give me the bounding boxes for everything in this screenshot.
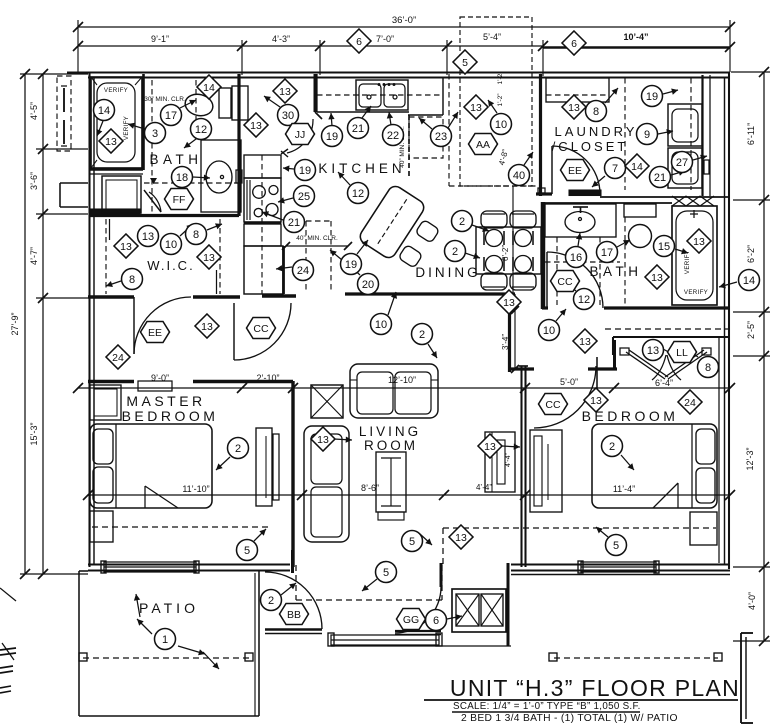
- callout diamond 14 #6: [625, 154, 649, 178]
- svg-text:13: 13: [250, 120, 262, 132]
- diamond 6 top right: [562, 31, 586, 55]
- exterior wall top: [67, 71, 730, 73]
- callout diamond 13 #3: [244, 113, 268, 137]
- leader c19 sink: [331, 113, 332, 126]
- callout circle 17 #29: [597, 242, 618, 263]
- callout circle 2 #40: [602, 436, 623, 457]
- svg-text:1’-2”: 1’-2”: [497, 93, 504, 106]
- callout circle 21 #27: [650, 167, 671, 188]
- master blanket fold: [145, 486, 178, 508]
- svg-text:12: 12: [578, 294, 590, 306]
- svg-text:13: 13: [470, 102, 482, 114]
- patio left outline: [79, 570, 88, 572]
- leader c5 master: [254, 529, 266, 541]
- leader c21 laundry: [671, 171, 685, 175]
- dashed 40min vertical: [408, 115, 410, 177]
- svg-text:21: 21: [352, 123, 364, 135]
- svg-text:23: 23: [435, 131, 447, 143]
- callout hexagon CC #5: [247, 318, 276, 339]
- callout diamond 13 #18: [478, 434, 502, 458]
- svg-text:11’-4”: 11’-4”: [613, 484, 635, 494]
- svg-text:14: 14: [98, 105, 110, 117]
- wall bath1 east: [237, 74, 240, 216]
- callout hexagon BB #9: [280, 604, 309, 625]
- callout diamond 13 #4: [464, 95, 488, 119]
- svg-text:5: 5: [613, 540, 619, 552]
- callout circle 10 #17: [371, 314, 392, 335]
- callout diamond 13 #9: [197, 245, 221, 269]
- leader c19 laundry: [663, 90, 678, 94]
- dim line B across y495: [88, 494, 730, 496]
- entry dashed: [295, 565, 297, 600]
- svg-text:6: 6: [571, 38, 577, 50]
- callout diamond 13 #16: [584, 388, 608, 412]
- svg-text:13: 13: [455, 532, 467, 544]
- svg-text:13: 13: [201, 321, 213, 333]
- laundry small fixture: [704, 160, 709, 174]
- kitchen counter dashed: [317, 94, 443, 96]
- svg-text:4’-4”: 4’-4”: [505, 452, 512, 467]
- leader c14 tub1: [97, 121, 103, 136]
- wall laundry south: [536, 192, 552, 195]
- sofa top: [350, 364, 438, 418]
- svg-text:13: 13: [590, 395, 602, 407]
- dimension line right: [763, 72, 765, 641]
- svg-text:LL: LL: [676, 347, 688, 359]
- dimension line second top: [78, 45, 543, 47]
- laundry dashed flues: [624, 78, 626, 190]
- leader c13 closet: [663, 349, 678, 357]
- callout circle 14 #33: [739, 270, 760, 291]
- callout diamond 13 #19: [311, 427, 335, 451]
- callout diamond 13 #5: [562, 95, 586, 119]
- dashed dining zone: [449, 185, 540, 187]
- callout circle 9 #24: [637, 124, 658, 145]
- callout circle 22 #12: [383, 125, 404, 146]
- laundry shelf: [546, 78, 609, 102]
- callout hexagon JJ #1: [286, 124, 315, 145]
- door hall-living CC: [233, 303, 235, 360]
- svg-text:16: 16: [570, 252, 582, 264]
- svg-text:4’-3”: 4’-3”: [272, 34, 290, 44]
- leader c2 master: [216, 457, 230, 470]
- slab line mid: [331, 645, 511, 647]
- wall pantry east: [282, 246, 285, 294]
- bed2 pillows: [696, 429, 715, 464]
- callout circle 1 #42: [155, 629, 176, 650]
- leader patio 1: [137, 619, 152, 634]
- fridge dashed: [409, 117, 443, 158]
- callout diamond 13 #13: [645, 265, 669, 289]
- vanity bath2: [545, 204, 616, 237]
- wall tub1 surround: [142, 74, 145, 170]
- dining seat bl: [486, 256, 503, 273]
- callout circle 40 #19: [509, 165, 530, 186]
- leader c3: [128, 124, 145, 129]
- leader c10 hall: [388, 292, 396, 315]
- living south window: [331, 635, 439, 645]
- callout circle 21 #8: [284, 212, 305, 233]
- leader c5 bed2: [596, 527, 608, 537]
- callout circle 5 #37: [402, 531, 423, 552]
- patio right slab: [511, 574, 730, 576]
- callout circle 24 #9: [293, 260, 314, 281]
- svg-text:8: 8: [593, 106, 599, 118]
- master dresser: [90, 385, 121, 420]
- leader c16 sink2: [578, 233, 580, 246]
- svg-text:40” MIN. CLR.: 40” MIN. CLR.: [296, 235, 338, 242]
- leader c6 mech: [447, 616, 462, 619]
- title underline: [424, 699, 738, 701]
- leader c12 kitchen: [338, 172, 350, 185]
- svg-text:13: 13: [693, 236, 705, 248]
- leader c17 toilet1: [180, 100, 196, 108]
- wall bedroom door north: [509, 367, 534, 370]
- svg-text:EE: EE: [568, 165, 582, 177]
- leader c9: [658, 131, 673, 134]
- mech closet: [452, 589, 506, 632]
- wall wic north: [89, 214, 239, 217]
- door bedroom2: [596, 357, 598, 390]
- callout diamond 24 #11: [106, 345, 130, 369]
- patio left dashed: [83, 657, 249, 659]
- callout diamond 13 #1: [99, 129, 123, 153]
- door bath2: [546, 252, 548, 308]
- svg-text:20: 20: [362, 279, 374, 291]
- door rear GG jamb: [440, 563, 443, 587]
- callout circle 5 #39: [376, 562, 397, 583]
- svg-text:19: 19: [345, 259, 357, 271]
- svg-text:30: 30: [282, 110, 294, 122]
- x end table: [311, 385, 343, 418]
- svg-text:FF: FF: [173, 194, 186, 206]
- leader c2 dining b: [465, 253, 480, 258]
- svg-text:13: 13: [484, 441, 496, 453]
- svg-text:17: 17: [165, 110, 177, 122]
- leader c2 bed2: [621, 455, 634, 470]
- callout circle 2 #20: [452, 211, 473, 232]
- svg-text:3’-6”: 3’-6”: [29, 172, 39, 190]
- svg-text:15’-3”: 15’-3”: [29, 422, 39, 445]
- wic closet dashed: [105, 219, 107, 294]
- leader c23 counter: [419, 118, 432, 129]
- svg-text:9: 9: [644, 129, 650, 141]
- callout diamond 13 #15: [573, 329, 597, 353]
- window bedroom 2: [581, 562, 656, 572]
- wall y297 wic-hall: [88, 295, 134, 299]
- wall bath2 west: [541, 202, 546, 309]
- svg-text:2’-5”: 2’-5”: [746, 321, 756, 339]
- leader c14 right: [719, 282, 737, 287]
- svg-text:10’-4”: 10’-4”: [623, 32, 648, 42]
- callout diamond 24 #17: [678, 390, 702, 414]
- shelf black wic top: [91, 209, 140, 215]
- callout circle 5 #38: [606, 535, 627, 556]
- callout diamond 13 #20: [449, 525, 473, 549]
- svg-text:8: 8: [705, 362, 711, 374]
- faucet T bath2: [573, 206, 588, 208]
- coffee table: [376, 452, 406, 512]
- callout hexagon LL #8: [668, 342, 697, 363]
- callout hexagon AA #2: [469, 134, 498, 155]
- leader c21 sink: [362, 106, 371, 118]
- svg-text:8: 8: [129, 274, 135, 286]
- callout circle 2 #41: [412, 324, 433, 345]
- svg-text:14: 14: [203, 82, 215, 94]
- callout circle 8 #22: [586, 101, 607, 122]
- leader c12 bath2: [566, 283, 576, 291]
- leader c8 wic left: [106, 281, 121, 286]
- window well dashed left: [57, 76, 71, 151]
- leader c5 gg: [362, 579, 377, 591]
- svg-text:9’-1”: 9’-1”: [151, 34, 169, 44]
- dining seat tr: [515, 230, 532, 247]
- callout circle 2 #21: [445, 241, 466, 262]
- svg-text:13: 13: [203, 252, 215, 264]
- callout hexagon CC #7: [539, 394, 568, 415]
- door kitchen JJ: [287, 119, 313, 153]
- svg-text:LIVING: LIVING: [359, 424, 421, 439]
- svg-text:VERIFY: VERIFY: [104, 87, 128, 94]
- callout circle 19 #23: [642, 86, 663, 107]
- svg-text:27: 27: [676, 157, 688, 169]
- exterior wall bottom master: [88, 563, 290, 565]
- callout circle 15 #30: [654, 236, 675, 257]
- counter below stove: [244, 224, 281, 246]
- kitchen sink: [356, 80, 408, 110]
- svg-text:14: 14: [631, 161, 643, 173]
- callout circle 19 #10: [322, 126, 343, 147]
- svg-text:3’-4”: 3’-4”: [501, 334, 510, 350]
- toilet 1: [183, 91, 215, 118]
- svg-text:15: 15: [658, 241, 670, 253]
- closet door curves: [652, 355, 666, 380]
- svg-text:2: 2: [609, 441, 615, 453]
- dining chair back tr: [510, 211, 536, 228]
- svg-text:JJ: JJ: [295, 129, 306, 141]
- kitchen island: [357, 183, 426, 260]
- leader c2 living: [428, 344, 437, 358]
- dashed soffit top: [460, 17, 532, 186]
- door bath1 leaf: [144, 190, 161, 212]
- svg-text:12: 12: [352, 188, 364, 200]
- svg-text:LAUNDRY: LAUNDRY: [555, 124, 638, 139]
- leader c40: [524, 152, 533, 165]
- stove: [244, 178, 281, 222]
- bed2 blanket fold: [653, 483, 678, 508]
- leader c10 top: [488, 100, 497, 113]
- svg-text:4’-7”: 4’-7”: [29, 247, 39, 265]
- callout hexagon GG #10: [397, 609, 426, 630]
- svg-text:PATIO: PATIO: [139, 600, 199, 616]
- svg-text:13: 13: [120, 241, 132, 253]
- svg-text:10: 10: [165, 239, 177, 251]
- closet door right: [668, 352, 707, 379]
- shower xmarks: [672, 196, 714, 206]
- callout circle 8 #46: [186, 224, 207, 245]
- svg-text:AA: AA: [476, 139, 490, 151]
- wall corner living west: [291, 550, 294, 573]
- exterior wall bottom right section: [511, 563, 730, 565]
- leader c19 pantrywall: [330, 250, 342, 260]
- svg-text:2: 2: [459, 216, 465, 228]
- svg-text:22: 22: [387, 130, 399, 142]
- svg-text:CC: CC: [557, 276, 573, 288]
- leader c18 sink1: [193, 177, 210, 178]
- toilet 2: [624, 204, 656, 217]
- top dim extension verticals: [77, 20, 79, 74]
- master tv unit: [256, 428, 272, 506]
- wall bump outside left: [60, 182, 88, 184]
- svg-text:6: 6: [433, 615, 439, 627]
- pantry dashed zone: [305, 221, 307, 293]
- door patio BB arc: [265, 572, 322, 629]
- callout diamond 13 #10: [195, 314, 219, 338]
- wall closet west x615: [613, 340, 616, 369]
- callout diamond 5 #7: [453, 50, 477, 74]
- callout circle 5 #36: [237, 540, 258, 561]
- closet shelf dashed: [605, 328, 728, 330]
- svg-text:21: 21: [654, 172, 666, 184]
- svg-text:VERIFY: VERIFY: [684, 250, 691, 274]
- diamond 6 top left: [347, 29, 371, 53]
- svg-text:EE: EE: [148, 327, 162, 339]
- svg-text:2: 2: [419, 329, 425, 341]
- door rear GG arc: [395, 587, 441, 633]
- callout hexagon CC #6: [551, 271, 580, 292]
- wall bath2 south: [604, 306, 730, 309]
- callout circle 27 #26: [672, 152, 693, 173]
- wall laundry west: [539, 74, 542, 196]
- svg-text:/CLOSET: /CLOSET: [552, 139, 629, 154]
- leader c12 bath1: [184, 139, 196, 148]
- svg-text:2: 2: [452, 246, 458, 258]
- svg-text:19: 19: [326, 131, 338, 143]
- callout circle 10 #32: [539, 320, 560, 341]
- svg-text:UNIT “H.3” FLOOR PLAN: UNIT “H.3” FLOOR PLAN: [450, 675, 740, 701]
- leader c20 island: [348, 264, 360, 275]
- wall kitchen jamb: [314, 74, 317, 112]
- svg-text:24: 24: [684, 397, 696, 409]
- svg-text:6: 6: [356, 36, 362, 48]
- svg-text:36’-0”: 36’-0”: [392, 15, 416, 26]
- svg-text:12’-3”: 12’-3”: [745, 447, 755, 470]
- svg-text:KITCHEN: KITCHEN: [318, 161, 405, 176]
- callout circle 7 #25: [605, 158, 626, 179]
- wall y294 dining-living: [262, 294, 296, 298]
- dining seat tl: [486, 230, 503, 247]
- leader c17 toilet2: [617, 240, 630, 247]
- svg-text:SCALE: 1/4” = 1’-0” TYPE “B”: SCALE: 1/4” = 1’-0” TYPE “B” 1,050 S.F.: [453, 701, 641, 712]
- leader c30: [264, 96, 280, 107]
- window master bedroom: [104, 562, 196, 572]
- leader c24 pantry: [276, 267, 292, 269]
- svg-text:17: 17: [601, 247, 613, 259]
- left inner dim line: [42, 74, 44, 574]
- bathtub 2: [672, 206, 717, 305]
- leader c10 bath2: [556, 309, 566, 321]
- bed2 nightstand: [690, 512, 717, 545]
- callout circle 14 #0: [94, 100, 115, 121]
- callout circle 13 #48: [138, 226, 159, 247]
- counter above stove: [244, 155, 281, 178]
- svg-text:13: 13: [142, 231, 154, 243]
- leader c8 wic top: [207, 224, 222, 230]
- bath2 dashed: [556, 237, 558, 305]
- callout circle 12 #14: [348, 183, 369, 204]
- callout diamond 13 #8: [114, 234, 138, 258]
- dashed clearance bath1: [151, 80, 153, 213]
- svg-text:19: 19: [299, 165, 311, 177]
- svg-text:5: 5: [383, 567, 389, 579]
- svg-text:18: 18: [176, 172, 188, 184]
- svg-text:10: 10: [495, 119, 507, 131]
- callout circle 19 #6: [295, 160, 316, 181]
- callout diamond 13 #14: [687, 229, 711, 253]
- callout hexagon EE #3: [561, 160, 590, 181]
- svg-text:5’-0”: 5’-0”: [560, 377, 578, 387]
- dimension line 27'-9" left: [24, 74, 26, 574]
- leader c5 hall: [420, 534, 432, 545]
- callout circle 21 #11: [348, 118, 369, 139]
- callout diamond 13 #12: [497, 290, 521, 314]
- island chair 1: [415, 219, 440, 243]
- leader c2 patio door: [281, 583, 296, 595]
- svg-text:W.I.C.: W.I.C.: [147, 258, 194, 273]
- svg-text:5: 5: [244, 545, 250, 557]
- bed 2: [592, 424, 717, 508]
- callout circle 25 #7: [294, 186, 315, 207]
- callout diamond 14 #0: [197, 75, 221, 99]
- leader c19 island: [357, 240, 368, 254]
- svg-text:13: 13: [317, 434, 329, 446]
- right dim extensions: [731, 71, 770, 73]
- callout circle 6 #44: [426, 610, 447, 631]
- svg-text:24: 24: [112, 352, 124, 364]
- callout circle 18 #4: [172, 167, 193, 188]
- svg-text:CC: CC: [253, 323, 269, 335]
- door wic: [133, 297, 135, 354]
- dim 40 min clr pantry: [286, 245, 348, 247]
- svg-text:4’-4”: 4’-4”: [476, 483, 492, 492]
- wall laundry east inner: [701, 75, 703, 196]
- leader c10 wic: [180, 224, 193, 236]
- svg-text:19: 19: [646, 91, 658, 103]
- svg-text:7’-0”: 7’-0”: [376, 34, 394, 44]
- svg-text:7: 7: [612, 163, 618, 175]
- callout circle 12 #3: [191, 119, 212, 140]
- callout diamond 13 #2: [273, 79, 297, 103]
- callout circle 19 #15: [341, 254, 362, 275]
- exterior wall right: [728, 72, 730, 569]
- svg-text:ROOM: ROOM: [364, 438, 418, 453]
- wall hall-bedroom x523: [520, 366, 522, 567]
- wall hall west x509: [508, 294, 511, 372]
- svg-text:GG: GG: [403, 614, 419, 626]
- svg-text:27’-9”: 27’-9”: [10, 312, 20, 335]
- svg-text:BB: BB: [287, 609, 301, 621]
- master shelf top: [138, 381, 172, 391]
- leader c22 sink: [389, 112, 391, 125]
- wall mech east: [507, 563, 510, 646]
- svg-text:6’-4”: 6’-4”: [655, 378, 673, 388]
- closet wall north: [613, 336, 730, 338]
- svg-text:6’-2”: 6’-2”: [746, 245, 756, 263]
- living cabinet: [485, 432, 515, 492]
- svg-text:12: 12: [195, 124, 207, 136]
- callout circle 8 #45: [122, 269, 143, 290]
- cabinet over toilet1: [232, 86, 248, 120]
